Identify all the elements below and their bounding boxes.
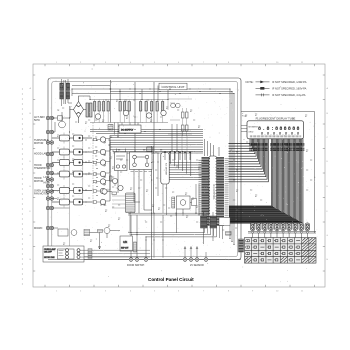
power supply module [119,123,141,134]
svg-text:F: F [30,211,32,213]
svg-text:THERMISTOR: THERMISTOR [34,167,51,170]
svg-text:8.8.8.8.8.8.8: 8.8.8.8.8.8.8 [261,131,299,135]
svg-text:IF NOT SPECIFIED, 160V-PA: IF NOT SPECIFIED, 160V-PA [272,86,307,90]
long vertical wires [115,123,200,260]
svg-text:NOTE:: NOTE: [246,80,254,84]
svg-text:MOTOR: MOTOR [34,180,43,183]
svg-text:REF OUT: REF OUT [121,248,128,250]
left side load labels [34,116,51,230]
power rails [72,86,234,245]
IC1 pin stub dots [209,158,216,223]
switch block pins [66,249,81,259]
regulator component [147,147,152,159]
bottom boundary bus [48,259,241,261]
svg-text:IF NOT SPECIFIED, 4.0µ-PA: IF NOT SPECIFIED, 4.0µ-PA [272,93,306,97]
key matrix grid [245,238,317,264]
svg-text:9: 9 [252,290,254,292]
feed wire component [108,125,113,131]
switch block wiring [80,249,150,259]
svg-text:4: 4 [130,290,132,292]
scan speckle [50,69,315,283]
svg-text:B: B [327,113,329,115]
relay block K2 [130,152,153,172]
svg-text:CONTROL UNIT: CONTROL UNIT [161,85,184,89]
driver transistor column [93,123,110,206]
controller IC1 right pin field [217,157,224,226]
svg-text:DC SUPPLY: DC SUPPLY [121,129,134,131]
control unit outline (outer) [48,78,241,260]
svg-text:HIGH: HIGH [44,182,50,185]
label CONTROL UNIT [159,83,187,90]
controller IC1 right wire band [225,158,229,225]
vertical feed wires [111,80,154,154]
svg-text:E: E [327,186,329,188]
controller top feed wires [205,139,220,156]
connector pins on control unit boundary [46,116,53,229]
control unit outline (inner) [52,82,238,257]
svg-text:50Hz: 50Hz [34,119,41,122]
svg-text:8: 8 [228,290,230,292]
border index numerals [30,62,329,292]
matrix row pins [246,240,248,261]
key matrix cells [245,238,316,263]
scan artifact streak [21,88,23,285]
svg-text:IF NOT SPECIFIED, 1/4W-PA: IF NOT SPECIFIED, 1/4W-PA [272,80,307,84]
svg-text:IC3 DRIVER: IC3 DRIVER [165,163,167,176]
legend symbols [256,81,270,97]
capacitor row above IC3 [160,128,195,160]
wire nest to controller [90,130,203,202]
svg-text:FLUORESCENT DISPLAY TUBE: FLUORESCENT DISPLAY TUBE [256,116,296,120]
key connector CN2 [112,193,135,213]
svg-text:G: G [327,235,329,237]
scan murk dots [50,83,318,261]
svg-text:A: A [327,87,329,90]
fluorescent display tube V1 [247,116,304,138]
svg-text:GRID: GRID [248,131,254,133]
auxiliary transistor cluster [102,176,123,194]
svg-text:HOOD FAN: HOOD FAN [44,256,55,259]
component value marks [57,100,312,244]
svg-text:6: 6 [178,290,180,292]
svg-text:Control Panel Circuit: Control Panel Circuit [148,277,194,282]
door switch connector [129,258,148,262]
display pin label bars [249,143,304,151]
svg-text:G: G [30,235,32,237]
junction dots [69,88,235,245]
load driver rows [52,106,92,246]
display driver IC3 [161,153,169,185]
page border frame [33,64,325,287]
controller IC1 left wire band [199,159,202,215]
2V sensor connector [183,258,208,262]
svg-text:C/N: C/N [123,241,127,244]
legend NOTE [246,80,307,97]
svg-text:ON-OFF: ON-OFF [44,252,52,254]
regulator resistor bank [90,100,168,123]
svg-text:P-20: P-20 [242,116,247,118]
bridge rectifier D1 [70,96,91,123]
buzzer transformer coils [201,212,231,244]
svg-text:D: D [30,161,32,163]
svg-text:D: D [327,161,329,163]
grid wire comb [229,139,303,224]
svg-text:2: 2 [80,290,82,292]
mid bus wires [128,213,203,232]
display input stubs [241,126,247,132]
connector C/N block [120,236,137,252]
matrix column drops [253,222,308,225]
controller bottom pin drops [128,213,223,258]
svg-text:5: 5 [154,290,156,292]
filter resistors [86,103,92,117]
key column bus [248,231,316,237]
svg-text:MOTOR: MOTOR [34,142,43,145]
buzzer driver Q10 [172,196,197,233]
svg-text:10: 10 [276,290,279,292]
svg-text:2V SENSOR: 2V SENSOR [190,264,204,267]
svg-text:H: H [327,259,329,261]
matrix side connector [239,239,244,252]
svg-text:A: A [30,87,32,90]
controller IC1 left pin field [202,157,210,226]
key switch row [250,223,309,231]
svg-text:DOOR SWITCH: DOOR SWITCH [127,264,145,267]
svg-text:11: 11 [301,290,304,292]
svg-text:B: B [30,113,32,115]
svg-text:3: 3 [105,290,107,292]
svg-text:OVEN LAMP: OVEN LAMP [44,248,56,251]
micro spare wires [52,199,70,209]
svg-text:IC1 CONTROL: IC1 CONTROL [212,184,214,200]
svg-text:E: E [30,186,32,188]
IC3 output bus [169,152,203,180]
relay block K1 [115,149,128,171]
svg-text:C: C [327,137,329,139]
segment wire comb [229,139,269,182]
fuse and AC input wiring [52,106,70,132]
display pin number row [250,135,302,137]
regulator transistors [95,110,166,119]
svg-text:H: H [30,259,32,261]
svg-text:1: 1 [56,290,58,292]
svg-text:F: F [327,211,329,213]
svg-text:C: C [30,137,32,139]
relay drop wires [118,170,152,214]
power transformer T1 [60,79,72,106]
sensor resistor [226,232,232,236]
wire to display anode [241,111,314,233]
svg-text:7: 7 [203,290,205,292]
supply subcircuit [168,99,192,136]
sensor wires [184,247,206,258]
micro drive row [52,228,120,250]
controller IC1 body [209,156,217,226]
oven lamp switch block [43,246,84,262]
svg-text:MICRO: MICRO [34,227,42,230]
